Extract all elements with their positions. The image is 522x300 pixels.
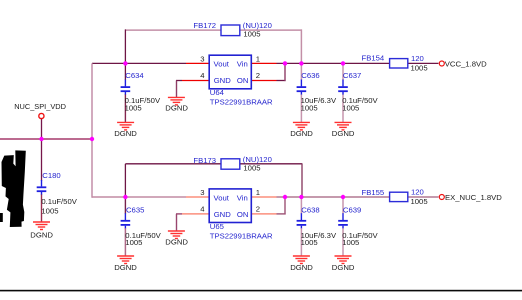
capacitor C180 [37, 171, 78, 222]
svg-text:FB155: FB155 [362, 188, 385, 197]
svg-text:1005: 1005 [411, 197, 428, 206]
wire med H pin1 to junctions bottom [277, 196, 390, 198]
wire med H pin4 corner bottom [176, 213, 182, 215]
svg-text:2: 2 [256, 71, 260, 80]
svg-text:1: 1 [256, 188, 260, 197]
bottom border frame line [0, 290, 522, 292]
junction dot top net at riser [123, 61, 127, 65]
junction dot C639 bottom [341, 195, 345, 199]
ground DGND C639 [332, 256, 355, 272]
svg-text:4: 4 [200, 71, 205, 80]
wire med H pin2 corner bottom [277, 213, 286, 215]
wire med V pin2 riser bottom [284, 197, 286, 215]
ground DGND C635 [114, 256, 137, 272]
wire med V pin2 riser [284, 63, 286, 81]
svg-text:ON: ON [237, 210, 249, 219]
svg-text:C637: C637 [343, 71, 361, 80]
svg-text:1005: 1005 [243, 164, 260, 173]
svg-text:DGND: DGND [332, 129, 355, 138]
wire dark V NUC terminal drop [41, 119, 43, 139]
svg-text:DGND: DGND [114, 263, 137, 272]
wire dark H riser to FB173 [125, 163, 221, 165]
svg-text:FB154: FB154 [362, 54, 385, 63]
ferrite bead FB155 [362, 188, 428, 206]
svg-text:VCC_1.8VD: VCC_1.8VD [445, 59, 487, 68]
junction dot pin2 riser bottom [283, 195, 287, 199]
wire salmon pin2 stub U65 [251, 213, 276, 215]
svg-text:4: 4 [200, 205, 205, 214]
svg-text:3: 3 [200, 188, 204, 197]
svg-text:ON: ON [237, 76, 249, 85]
junction dot NUC terminal rail [39, 137, 43, 141]
svg-text:Vin: Vin [237, 193, 248, 202]
svg-text:TPS22991BRAAR: TPS22991BRAAR [210, 98, 273, 107]
ground DGND C636 [290, 122, 313, 138]
svg-text:DGND: DGND [290, 129, 313, 138]
capacitor C636 [297, 63, 337, 122]
svg-text:TPS22991BRAAR: TPS22991BRAAR [210, 231, 273, 240]
svg-text:DGND: DGND [30, 230, 53, 239]
svg-text:FB172: FB172 [193, 21, 216, 30]
svg-text:2: 2 [256, 205, 260, 214]
svg-text:DGND: DGND [332, 263, 355, 272]
node NUC_SPI_VDD terminal [14, 102, 66, 119]
junction dot C636 top [299, 61, 303, 65]
wire red pin4 stub U64 [182, 80, 209, 82]
ferrite bead FB173 [193, 155, 271, 173]
wire med H mid rail right [42, 138, 93, 140]
ground DGND C180 [30, 222, 53, 239]
wire rose V main rail [91, 63, 93, 197]
ground DGND C638 [290, 256, 313, 272]
node VCC_1.8VD terminal [439, 59, 487, 68]
svg-text:3: 3 [200, 54, 204, 63]
wire dark H FB154 to VCC terminal [408, 62, 439, 64]
ferrite bead FB172 [193, 21, 271, 39]
svg-text:C636: C636 [301, 71, 319, 80]
wire dark V C180 upper stem [41, 139, 43, 181]
capacitor C634 [121, 63, 161, 122]
wire salmon pin1 stub U65 [251, 196, 276, 198]
svg-text:DGND: DGND [114, 129, 137, 138]
wire med V pin4 to ground bottom [176, 214, 178, 231]
ground DGND U64 pin4 [165, 97, 188, 112]
wire dark H pin1 to junctions [277, 62, 390, 64]
wire dark V riser FB173 [124, 164, 126, 197]
svg-text:U64: U64 [210, 88, 225, 97]
svg-text:DGND: DGND [290, 263, 313, 272]
wire med H mid rail left [0, 138, 42, 140]
svg-text:C638: C638 [301, 205, 319, 214]
wire rose H bottom net left [92, 196, 186, 198]
wire salmon pin4 stub U65 [182, 213, 209, 215]
wire red pin1 stub U64 [251, 62, 276, 64]
ground DGND U65 pin4 [165, 231, 188, 247]
wire dark H top net to pin3 [92, 62, 186, 64]
junction dot C638 bottom [299, 195, 303, 199]
wire med H FB155 to EX terminal [408, 196, 439, 198]
wire red pin2 stub U64 [251, 80, 276, 82]
svg-text:1005: 1005 [243, 30, 260, 39]
wire dark V riser to FB172 [124, 29, 126, 63]
IC U65 load switch TPS22991BRAAR [200, 188, 273, 240]
wire med V pin4 to ground [176, 81, 178, 98]
svg-text:1005: 1005 [342, 238, 359, 247]
IC U64 load switch TPS22991BRAAR [200, 54, 273, 106]
svg-text:1005: 1005 [125, 104, 142, 113]
svg-text:C635: C635 [126, 205, 144, 214]
black redaction blob [0, 150, 26, 227]
junction dot pin2 riser top [283, 61, 287, 65]
wire dark H pin2 to riser [277, 80, 286, 82]
svg-text:Vout: Vout [214, 193, 230, 202]
wire dark H FB173 right lead [240, 163, 303, 165]
ferrite bead FB154 [362, 54, 428, 73]
junction dot C637 top [341, 61, 345, 65]
svg-text:U65: U65 [210, 222, 224, 231]
svg-text:Vout: Vout [214, 60, 230, 69]
svg-text:1005: 1005 [41, 206, 58, 215]
svg-text:NUC_SPI_VDD: NUC_SPI_VDD [14, 102, 66, 111]
capacitor C638 [297, 197, 337, 256]
junction dot bottom net at riser [123, 195, 127, 199]
capacitor C635 [121, 197, 162, 256]
svg-text:GND: GND [214, 76, 232, 85]
svg-text:EX_NUC_1.8VD: EX_NUC_1.8VD [445, 193, 502, 202]
svg-text:(NU)120: (NU)120 [243, 155, 272, 164]
svg-text:120: 120 [411, 54, 424, 63]
svg-text:1005: 1005 [411, 63, 428, 72]
node EX_NUC_1.8VD terminal [439, 193, 502, 202]
wire rose H FB172 right lead [240, 29, 303, 31]
svg-text:C639: C639 [343, 205, 361, 214]
svg-text:120: 120 [411, 188, 424, 197]
svg-text:0.1uF/50V: 0.1uF/50V [41, 197, 77, 206]
svg-text:1005: 1005 [301, 104, 318, 113]
svg-text:Vin: Vin [237, 60, 248, 69]
svg-text:C180: C180 [42, 171, 60, 180]
wire red pin3 stub U64 [186, 62, 209, 64]
svg-text:FB173: FB173 [193, 156, 216, 165]
svg-text:GND: GND [214, 210, 232, 219]
capacitor C637 [338, 63, 378, 122]
svg-text:1005: 1005 [342, 104, 359, 113]
capacitor C639 [338, 197, 378, 256]
junction dot main rail mid [90, 137, 94, 141]
wire rose V FB172 output drop [300, 29, 302, 63]
wire rose H FB172 left lead [125, 29, 222, 31]
ground DGND C637 [332, 122, 355, 138]
svg-text:C634: C634 [125, 71, 144, 80]
wire med V FB173 output drop [301, 164, 303, 197]
wire dark H pin4 corner [176, 80, 182, 82]
svg-text:1005: 1005 [301, 238, 318, 247]
svg-text:1: 1 [256, 54, 260, 63]
svg-text:DGND: DGND [165, 103, 188, 112]
ground DGND C634 [114, 122, 137, 138]
wire salmon pin3 stub U65 [186, 196, 209, 198]
svg-text:DGND: DGND [165, 238, 188, 247]
svg-text:1005: 1005 [125, 238, 142, 247]
